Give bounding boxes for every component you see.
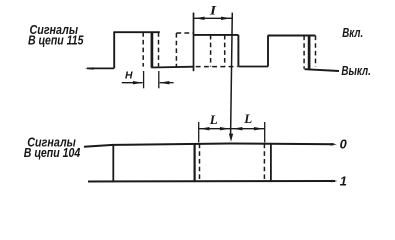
wire: late fall 1 (dashed)	[158, 32, 160, 66]
wire: high segment 1	[113, 31, 159, 33]
label: signals in circuit 115 (top-left caption)	[28, 22, 84, 48]
wire: early fall 3 (dashed)	[303, 36, 305, 69]
wire: dashed low stub between rise2 and fall2	[196, 66, 238, 68]
svg-text:В цепи 104: В цепи 104	[24, 145, 81, 160]
label: signals in circuit 104 (bottom-left caption)	[24, 134, 81, 160]
wire: early fall 2 (dashed)	[224, 35, 226, 67]
dimension H: distortion margin	[122, 71, 174, 88]
wire: bit boundary dashed 2a	[199, 144, 201, 182]
wire: low segment 2	[151, 66, 194, 69]
dimension L-L: half periods around centre line	[199, 122, 265, 142]
wire: high segment 2	[193, 34, 238, 36]
wire: rise edge 3	[267, 35, 269, 66]
svg-text:0: 0	[340, 137, 347, 152]
svg-text:Н: Н	[125, 71, 133, 82]
svg-text:Выкл.: Выкл.	[341, 64, 371, 78]
wire: early rise 2 (dashed)	[175, 33, 177, 67]
dimension I: period marker	[194, 17, 233, 20]
wire: high segment 3	[268, 35, 316, 37]
svg-text:1: 1	[340, 173, 347, 188]
svg-text:L: L	[243, 111, 252, 126]
wire: bit boundary solid 1	[112, 145, 114, 181]
node: centre reference line down to circuit-104	[229, 13, 233, 142]
wire: bit boundary solid 3	[270, 144, 272, 182]
wire: rise edge 1	[113, 32, 115, 68]
wire: final low segment	[305, 69, 340, 71]
wire: bit boundary dashed 3a	[263, 144, 265, 182]
svg-text:Вкл.: Вкл.	[342, 26, 363, 40]
wire: fall edge 2	[237, 35, 239, 67]
wire: dashed high stub before rise 2	[176, 32, 193, 34]
wire: nominal fall edge 3 (thick)	[308, 36, 311, 70]
wire: low segment 3	[238, 66, 268, 68]
wire: late rise 2 (dashed)	[210, 35, 212, 67]
wire: rise edge 2 with I-dimension extension	[193, 13, 195, 72]
wire: circuit-104 zero rail	[84, 144, 334, 147]
wire: early fall 1 (dashed)	[142, 32, 144, 66]
svg-text:В цепи 115: В цепи 115	[28, 33, 84, 48]
svg-text:L: L	[209, 112, 218, 127]
wire: circuit-104 one rail	[88, 180, 335, 183]
wire: bit boundary solid 2 (thick)	[194, 144, 196, 182]
wire: late fall 3 (dashed)	[315, 36, 317, 67]
wire: circuit-115 initial low segment	[87, 67, 114, 69]
wire: nominal fall edge 1 (thick)	[151, 32, 154, 67]
svg-text:I: I	[209, 3, 218, 17]
